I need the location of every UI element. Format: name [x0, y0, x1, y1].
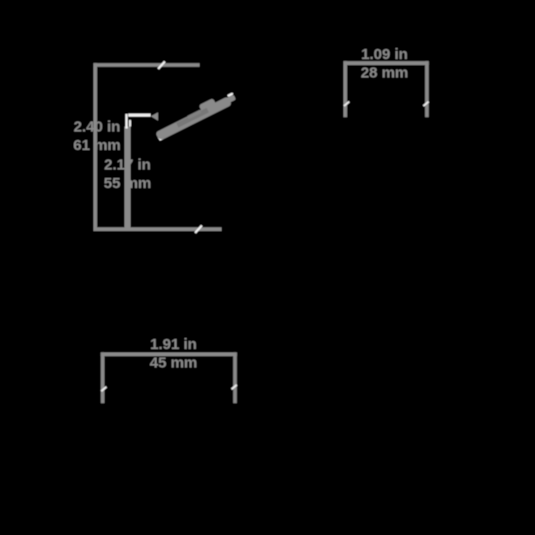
pen lower tip highlight	[157, 134, 164, 141]
front view: left dimension drop line	[344, 61, 348, 117]
side view: top extension line arrow slash	[157, 61, 165, 70]
clip head nose (gray triangle pointing left)	[151, 112, 158, 120]
clip head white hook highlight	[129, 120, 131, 127]
svg-text:2.17 in: 2.17 in	[104, 156, 151, 173]
front view: right dimension drop line	[425, 61, 429, 117]
pen clip hump	[199, 98, 216, 111]
svg-text:28 mm: 28 mm	[361, 65, 409, 82]
pen upper tip highlight	[227, 92, 233, 97]
svg-text:1.09 in: 1.09 in	[361, 46, 408, 63]
side view: bottom extension line arrow slash	[194, 225, 202, 234]
top view: left dimension drop line	[101, 352, 105, 403]
svg-text:45 mm: 45 mm	[150, 355, 198, 372]
pen barrel text shading	[176, 108, 209, 128]
top view: right dimension drop line	[233, 352, 237, 403]
svg-text:55 mm: 55 mm	[104, 175, 152, 192]
clip stem (inner vertical)	[125, 127, 131, 229]
clip head white left edge	[125, 114, 127, 129]
pen barrel	[155, 96, 232, 141]
side view: bottom extension line	[94, 227, 222, 231]
svg-text:1.91 in: 1.91 in	[150, 336, 197, 353]
top view: right white arrow speck	[231, 384, 237, 390]
front view: left white arrow speck	[343, 101, 349, 107]
top view: top dimension line	[101, 352, 237, 356]
pen product (diagonal)	[153, 89, 237, 141]
side view: left vertical dimension line	[94, 63, 98, 231]
pen nib	[225, 94, 236, 103]
front view: top dimension line	[344, 61, 429, 65]
svg-text:2.40 in: 2.40 in	[74, 119, 121, 136]
svg-text:61 mm: 61 mm	[73, 137, 121, 154]
top view: left white arrow speck	[101, 386, 107, 392]
front view: right white arrow speck	[423, 101, 429, 107]
side view: top extension line	[94, 63, 200, 67]
clip head white top bar	[128, 114, 150, 117]
